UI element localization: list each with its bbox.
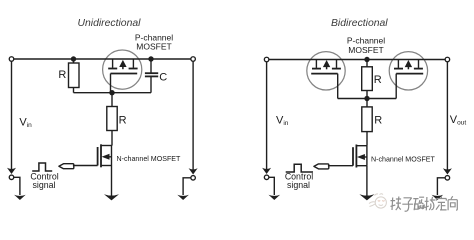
terminal output right (open circle) (445, 57, 450, 62)
ground Q1 (104, 194, 119, 200)
wire to ground left (14, 177, 20, 195)
node C junction dot (109, 90, 114, 95)
svg-text:Vin: Vin (276, 115, 289, 128)
resistor R1 (69, 59, 80, 93)
svg-text:C: C (159, 71, 167, 83)
channel bar (100, 144, 102, 167)
wire control to Q1 gate (73, 165, 98, 167)
wire control to Q2 gate (328, 165, 353, 167)
wire Vin branch left (11, 61, 13, 172)
arrowhead into Vin lower terminal (7, 168, 16, 174)
drain lead (356, 145, 367, 147)
gate plate (311, 73, 338, 75)
svg-text:Bidirectional: Bidirectional (331, 18, 388, 29)
ground left input (14, 195, 26, 200)
transistor Q1 n-mosfet (98, 144, 112, 167)
channel bar (355, 145, 357, 168)
left bar (394, 68, 403, 70)
watermark logo (faint emblem) (369, 194, 386, 208)
right bar (332, 68, 341, 70)
control pulse waveform left (32, 163, 52, 171)
left bar (108, 68, 117, 70)
p-mosfet U2 body circle (307, 52, 345, 90)
svg-text:N-channel MOSFET: N-channel MOSFET (117, 155, 182, 163)
substrate arrow (122, 64, 124, 69)
substrate arrow (326, 64, 328, 69)
arrowhead into Vin lower terminal right (262, 168, 271, 174)
drain vertical (111, 146, 113, 166)
capacitor C1 (145, 59, 158, 93)
svg-text:Vout: Vout (450, 114, 467, 127)
wire Vin branch right circuit (266, 62, 268, 172)
p-mosfet U3 internals (394, 60, 423, 99)
svg-text:MOSFET: MOSFET (348, 45, 383, 55)
ground output left circuit (177, 195, 189, 200)
control arrow symbol right (314, 164, 329, 169)
svg-text:signal: signal (287, 180, 310, 190)
wire Q2 source to ground (366, 166, 368, 198)
glyph 4: chang (425, 197, 436, 211)
wire Q1 source to ground (111, 166, 113, 198)
left stub (112, 59, 114, 68)
svg-text:Vin: Vin (19, 116, 32, 129)
gate drop wire (395, 74, 397, 99)
ground Q2 (359, 194, 374, 200)
left bar (312, 68, 321, 70)
terminal output left (open circle) (191, 57, 196, 62)
source lead (356, 165, 367, 167)
drain lead (101, 145, 112, 147)
gate bar (97, 147, 99, 166)
left stub (397, 60, 399, 68)
node E junction dot (364, 96, 369, 101)
right stub (418, 60, 420, 68)
svg-text:R: R (374, 115, 382, 127)
control arrow symbol left (59, 164, 74, 169)
drain vertical (366, 146, 368, 166)
svg-text:MOSFET: MOSFET (136, 41, 171, 51)
right stub (336, 60, 338, 68)
body stub with arrow (108, 156, 112, 158)
node A junction dot (R1 top) (71, 56, 76, 61)
gate drop wire (110, 74, 112, 93)
arrowhead into output lower terminal (189, 168, 198, 174)
resistor R2 (107, 93, 117, 146)
gate plate (111, 73, 138, 75)
terminal Vin lower right (open circle) (264, 175, 269, 180)
glyph 1: zhuan (391, 197, 402, 211)
svg-text:R: R (58, 69, 66, 81)
svg-text:R: R (119, 115, 127, 127)
terminal output lower (open circle) (191, 176, 196, 181)
p-mosfet U3 body circle (389, 52, 427, 90)
glyph 2: zi (402, 198, 413, 211)
p-mosfet U2 internals (311, 60, 341, 99)
gate plate (396, 73, 423, 75)
wire top rail left (14, 58, 191, 60)
wire to ground right Vin (269, 177, 274, 195)
glyph 3: ci (413, 197, 424, 210)
control pulse waveform right (286, 164, 313, 172)
ground right Vin (269, 195, 281, 200)
glyph 6: xiang (448, 196, 457, 210)
resistor R4 (362, 99, 372, 146)
terminal Vout lower (open circle) (445, 176, 450, 181)
source lead (101, 165, 112, 167)
wire gate node (R1 bottom to C1 bottom) (74, 92, 152, 94)
node B junction dot (C1 top) (148, 56, 153, 61)
p-mosfet U1 internals (108, 59, 137, 93)
right bar (414, 68, 423, 70)
svg-text:N-channel MOSFET: N-channel MOSFET (371, 156, 436, 164)
resistor R3 (362, 60, 373, 99)
ground Vout (432, 195, 444, 200)
wire gate line right circuit (338, 98, 397, 100)
glyph 5: ding (436, 197, 447, 210)
substrate arrow (407, 64, 409, 69)
terminal Vin lower (open circle) (9, 175, 14, 180)
body stub with arrow (363, 156, 367, 158)
terminal input left (open circle) (9, 57, 14, 62)
gate drop wire (337, 74, 339, 99)
svg-text:signal: signal (33, 180, 56, 190)
wire output branch left circuit (192, 61, 194, 172)
node D junction dot (R3 top) (364, 57, 369, 62)
p-mosfet U1 body circle (103, 50, 142, 89)
gate bar (352, 147, 354, 166)
watermark text 转子磁场定向 (drawn pseudo-glyph strokes) (391, 196, 458, 211)
wire to ground Vout (437, 178, 445, 195)
terminal input right (open circle) (264, 57, 269, 62)
transistor Q2 n-mosfet (353, 145, 367, 168)
left stub (315, 60, 317, 68)
wire top rail right (269, 59, 445, 61)
right stub (132, 59, 134, 68)
svg-text:R: R (374, 74, 382, 86)
wire to ground right of left circuit (183, 178, 191, 195)
wire Vout branch (446, 62, 448, 173)
arrowhead into Vout lower terminal (443, 168, 452, 174)
svg-text:Unidirectional: Unidirectional (78, 18, 142, 29)
right bar (129, 68, 138, 70)
